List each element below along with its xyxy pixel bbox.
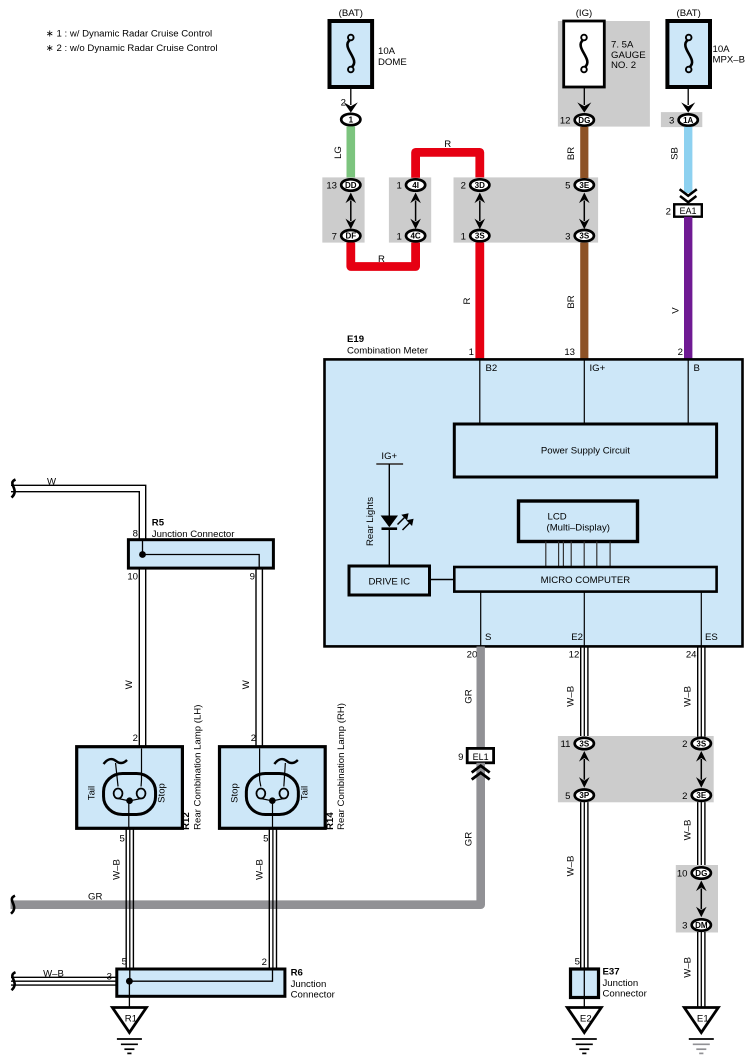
svg-text:MICRO COMPUTER: MICRO COMPUTER [541, 575, 631, 586]
connector 3P [565, 790, 594, 802]
svg-text:1A: 1A [683, 116, 693, 125]
wire W (R5 pin 10 to R12) [138, 568, 140, 747]
wire V [684, 217, 692, 359]
svg-text:3S: 3S [579, 232, 589, 241]
ground E1 [684, 1008, 718, 1054]
wire W-B (R14 pin 5 to R6 pin 2) [268, 828, 270, 969]
pin S lead [480, 592, 482, 647]
svg-text:10A: 10A [713, 44, 731, 55]
connector DG-b [677, 867, 711, 879]
svg-text:5: 5 [263, 834, 268, 845]
svg-text:Tail: Tail [299, 786, 310, 800]
wire GR (EL1 down, left to rear lamps) [11, 763, 481, 905]
wire BR [580, 127, 588, 178]
svg-text:5: 5 [119, 834, 124, 845]
pin IG+ lead [583, 359, 585, 425]
svg-text:GR: GR [463, 689, 474, 703]
wire break squiggle W [12, 480, 16, 498]
R6 junction dot [126, 978, 133, 985]
fuse 10A MPX-B [667, 8, 745, 87]
svg-text:3: 3 [565, 231, 570, 242]
svg-text:W–B: W–B [683, 686, 694, 707]
svg-text:2: 2 [251, 733, 256, 744]
connector mating arrows [696, 881, 707, 918]
wire DRIVE IC to MICRO COMPUTER [430, 579, 455, 581]
connector mating arrows [346, 193, 357, 230]
wire W-B (DM to ground E1) [697, 932, 699, 1008]
IG+ internal supply symbol [376, 451, 403, 516]
svg-text:3E: 3E [696, 791, 706, 800]
fuse 7.5A GAUGE NO.2 [558, 21, 650, 127]
svg-text:∗ 2 : w/o Dynamic Radar Cruise: ∗ 2 : w/o Dynamic Radar Cruise Control [46, 43, 218, 54]
svg-text:3S: 3S [696, 739, 706, 748]
fuse 10A DOME [330, 8, 407, 87]
connector 3S-b [565, 230, 594, 242]
svg-text:Rear Combination Lamp (LH): Rear Combination Lamp (LH) [193, 705, 204, 830]
svg-text:SB: SB [670, 147, 681, 160]
svg-text:R: R [444, 139, 451, 150]
svg-text:R: R [462, 297, 473, 304]
svg-text:1: 1 [396, 181, 401, 192]
svg-text:Stop: Stop [157, 783, 168, 803]
Power Supply Circuit box [454, 424, 716, 477]
svg-text:W–B: W–B [43, 968, 64, 979]
component E37 Junction Connector [571, 969, 599, 1008]
svg-text:R: R [378, 254, 385, 265]
svg-text:EL1: EL1 [473, 752, 489, 762]
pin B lead [687, 359, 689, 425]
svg-text:Combination Meter: Combination Meter [347, 346, 429, 357]
svg-text:R14: R14 [325, 812, 336, 830]
connector EA1 [666, 204, 702, 217]
svg-text:10: 10 [127, 572, 138, 583]
svg-text:Junction Connector: Junction Connector [152, 529, 235, 540]
connector DM [682, 919, 711, 931]
svg-text:24: 24 [686, 650, 697, 661]
connector mating arrows [579, 751, 590, 788]
svg-text:EA1: EA1 [679, 206, 696, 216]
svg-text:DF: DF [345, 232, 356, 241]
connector mating arrows [579, 193, 590, 230]
LED rear lights [381, 514, 413, 566]
connector mating arrows [410, 193, 421, 230]
svg-text:W: W [47, 476, 57, 487]
ground E2 [567, 1008, 601, 1054]
svg-text:Connector: Connector [603, 988, 648, 999]
connector DF [332, 230, 361, 242]
svg-text:13: 13 [564, 347, 575, 358]
svg-text:V: V [671, 307, 682, 314]
svg-text:Rear Lights: Rear Lights [365, 497, 376, 546]
junction block 3D/3S 3E/3S [454, 177, 599, 242]
svg-text:20: 20 [467, 650, 478, 661]
junction block 3S/3P 3S/3E [558, 736, 714, 802]
svg-text:R6: R6 [291, 968, 303, 979]
svg-text:E2: E2 [580, 1014, 592, 1025]
wire W-B (3E to DG) [697, 802, 699, 866]
svg-text:GR: GR [463, 832, 474, 846]
svg-text:E1: E1 [697, 1014, 709, 1025]
svg-text:2: 2 [678, 347, 683, 358]
svg-text:BR: BR [566, 295, 577, 308]
pin E2 lead [583, 592, 585, 647]
connector 3S-d [682, 738, 711, 750]
svg-text:DG: DG [695, 869, 707, 878]
svg-text:DRIVE IC: DRIVE IC [369, 577, 411, 588]
svg-text:LCD: LCD [548, 512, 567, 523]
pin B2 lead [479, 359, 481, 425]
svg-text:5: 5 [575, 957, 580, 968]
connector 3S [461, 230, 490, 242]
svg-text:2: 2 [461, 181, 466, 192]
svg-text:DG: DG [578, 116, 590, 125]
svg-text:13: 13 [326, 181, 337, 192]
arrowhead [344, 102, 358, 112]
component R12 Rear Combination Lamp (LH) [77, 747, 183, 829]
svg-text:5: 5 [565, 791, 570, 802]
wire W (R5 pin 9 to R14) [255, 568, 257, 747]
svg-text:1: 1 [396, 231, 401, 242]
svg-text:Power Supply Circuit: Power Supply Circuit [541, 446, 630, 457]
R6 internal bus [129, 969, 272, 981]
wire GR (S pin 20 down to EL1) [477, 647, 485, 749]
wire W-B (3P to E37 pin 5) [580, 802, 582, 969]
svg-text:4C: 4C [410, 232, 420, 241]
DRIVE IC box [349, 566, 430, 595]
svg-text:9: 9 [458, 752, 463, 763]
wire R6 to ground R1 [128, 984, 130, 1008]
svg-text:Rear Combination Lamp (RH): Rear Combination Lamp (RH) [336, 703, 347, 830]
LCD to MICRO COMPUTER leads [546, 542, 610, 568]
connector 4C [396, 230, 425, 242]
svg-text:(BAT): (BAT) [677, 8, 701, 19]
svg-text:IG+: IG+ [381, 451, 397, 462]
LCD (Multi-Display) box [519, 501, 638, 542]
svg-text:2: 2 [341, 98, 346, 109]
in-line connector chevrons to EA1 [680, 189, 697, 202]
svg-text:W: W [241, 679, 252, 689]
svg-text:E19: E19 [347, 334, 364, 345]
svg-text:2: 2 [262, 957, 267, 968]
arrowhead [681, 102, 695, 112]
connector mating arrows [696, 751, 707, 788]
svg-text:B2: B2 [486, 363, 498, 374]
wire R (3S to combination meter pin 1) [475, 243, 484, 359]
svg-text:(Multi–Display): (Multi–Display) [547, 523, 610, 534]
svg-text:10A: 10A [378, 46, 396, 57]
svg-text:7. 5A: 7. 5A [611, 40, 634, 51]
wire W-B (E2 pin 12 to 3S) [580, 647, 582, 737]
svg-text:3E: 3E [579, 181, 589, 190]
svg-text:IG+: IG+ [590, 363, 606, 374]
svg-text:(BAT): (BAT) [339, 8, 363, 19]
svg-text:5: 5 [565, 181, 570, 192]
junction block 4I/4C [389, 177, 431, 242]
svg-text:10: 10 [677, 869, 688, 880]
svg-text:W–B: W–B [565, 686, 576, 707]
connector 3D [461, 179, 490, 191]
svg-text:W–B: W–B [111, 859, 122, 880]
wire LG [346, 126, 355, 179]
wire SB [684, 127, 692, 193]
svg-text:ES: ES [705, 632, 718, 643]
connector 1A [669, 114, 698, 126]
svg-text:R5: R5 [152, 518, 165, 529]
svg-text:∗ 1 : w/ Dynamic Radar Cruise: ∗ 1 : w/ Dynamic Radar Cruise Control [46, 29, 212, 40]
svg-text:3: 3 [682, 921, 687, 932]
connector 4I [396, 179, 425, 191]
connector 3E [682, 790, 711, 802]
arrowhead [577, 102, 591, 112]
svg-text:12: 12 [560, 116, 571, 127]
svg-text:3S: 3S [475, 232, 485, 241]
junction block DD/DF [322, 177, 364, 242]
svg-text:W–B: W–B [565, 856, 576, 877]
svg-text:GR: GR [88, 892, 102, 903]
svg-text:11: 11 [561, 739, 571, 750]
svg-text:Tail: Tail [87, 786, 98, 800]
svg-text:3P: 3P [579, 791, 589, 800]
MICRO COMPUTER box [454, 567, 716, 592]
svg-text:E2: E2 [571, 632, 583, 643]
svg-text:DM: DM [695, 921, 708, 930]
wire W-B (ES pin 24 to 3S) [697, 647, 699, 737]
connector 3E [565, 179, 594, 191]
R5 junction dot [139, 551, 146, 558]
svg-text:E37: E37 [603, 967, 620, 978]
svg-text:4I: 4I [412, 181, 419, 190]
svg-text:3: 3 [669, 116, 674, 127]
svg-text:8: 8 [133, 529, 138, 540]
svg-text:W–B: W–B [683, 820, 694, 841]
svg-text:3: 3 [107, 972, 112, 983]
wire W from stop light switch [11, 485, 146, 539]
svg-text:12: 12 [569, 650, 580, 661]
pin ES lead [700, 592, 702, 647]
connector DG [560, 114, 594, 126]
svg-text:(IG): (IG) [576, 8, 593, 19]
svg-text:Stop: Stop [229, 783, 240, 803]
junction block DG/DM [676, 865, 718, 933]
connector DD [326, 179, 360, 191]
svg-text:W–B: W–B [254, 859, 265, 880]
svg-text:2: 2 [682, 791, 687, 802]
svg-text:R12: R12 [181, 812, 192, 830]
svg-text:B: B [694, 363, 700, 374]
svg-text:5: 5 [122, 957, 127, 968]
svg-text:Connector: Connector [291, 989, 336, 1000]
svg-text:W: W [124, 679, 135, 689]
svg-text:DOME: DOME [378, 57, 407, 68]
svg-text:2: 2 [682, 739, 687, 750]
component R6 Junction Connector [117, 969, 285, 996]
wire fuse DOME to connector 1 [341, 87, 351, 109]
connector EL1 [458, 748, 493, 763]
svg-text:2: 2 [666, 207, 671, 218]
wire W-B into R6 pin 3 [11, 976, 117, 978]
svg-text:1: 1 [469, 347, 474, 358]
svg-text:R1: R1 [125, 1014, 137, 1025]
svg-text:BR: BR [566, 147, 577, 160]
svg-text:LG: LG [333, 146, 344, 159]
svg-text:7: 7 [332, 231, 337, 242]
svg-text:1: 1 [461, 231, 466, 242]
wire R (4I to 3D) [416, 152, 480, 177]
svg-text:3S: 3S [579, 739, 589, 748]
svg-text:W–B: W–B [683, 957, 694, 978]
svg-text:MPX–B: MPX–B [713, 55, 746, 66]
connector mating arrows [475, 193, 486, 230]
component R14 Rear Combination Lamp (RH) [220, 747, 326, 829]
connector 3S-c [561, 738, 594, 750]
svg-text:1: 1 [349, 115, 354, 124]
R5 internal bus [143, 541, 260, 568]
svg-text:DD: DD [345, 181, 357, 190]
svg-text:9: 9 [250, 572, 255, 583]
wire fuse MPX-B to connector 1A [687, 87, 689, 105]
wire break squiggle GR [11, 896, 15, 914]
wire W-B (R12 pin 5 to R6 pin 5) [125, 828, 127, 969]
wire fuse GAUGE to connector DG [583, 87, 585, 105]
EL1 mating chevrons [472, 766, 490, 780]
svg-text:3D: 3D [475, 181, 485, 190]
connector 1 [341, 114, 360, 125]
wire R (DF to 4C) [351, 243, 416, 267]
svg-text:2: 2 [133, 733, 138, 744]
svg-text:NO. 2: NO. 2 [611, 60, 636, 71]
ground R1 [112, 1008, 146, 1054]
svg-text:S: S [485, 632, 491, 643]
wire break squiggle W-B [12, 972, 16, 990]
